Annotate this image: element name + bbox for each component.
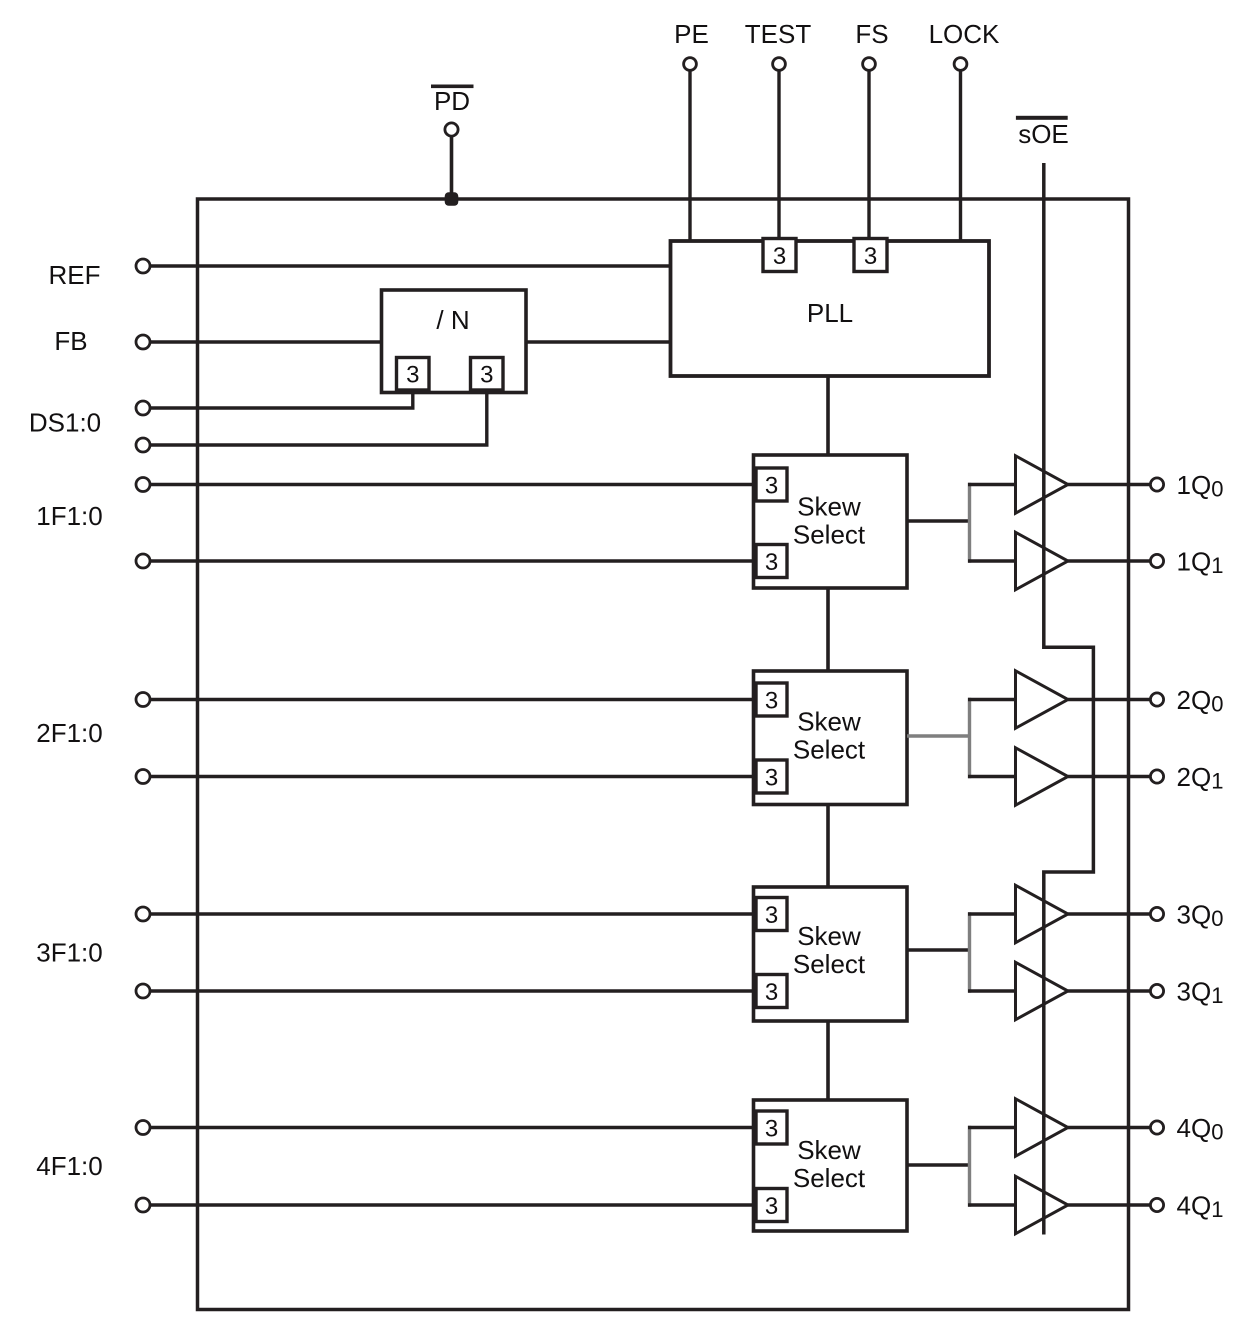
skew select 3 box xyxy=(754,887,908,1021)
svg-text:PD: PD xyxy=(434,86,470,116)
svg-text:3F1:0: 3F1:0 xyxy=(36,938,103,968)
svg-text:3: 3 xyxy=(765,765,778,792)
svg-text:3: 3 xyxy=(480,362,493,389)
pin 1Q0 circle xyxy=(1150,478,1163,491)
wire PD to top border xyxy=(450,133,454,199)
svg-text:3: 3 xyxy=(765,688,778,715)
wire 2F0 input xyxy=(149,775,758,778)
fanout bracket group 2 to buffer 2Q1 xyxy=(968,775,1016,778)
svg-text:TEST: TEST xyxy=(745,19,812,49)
bus width box 3 (divider left) xyxy=(397,358,430,391)
wire skew select 4 output xyxy=(907,1163,969,1166)
svg-text:Select: Select xyxy=(793,735,866,765)
wire 1F0 input xyxy=(149,559,758,562)
wire 2F1 input xyxy=(149,698,758,701)
chip boundary box xyxy=(198,199,1129,1310)
pin 4F0 circle xyxy=(136,1198,150,1212)
wire TEST xyxy=(777,68,780,240)
bus width box 3 (skew select 3 upper) xyxy=(756,898,787,931)
pin DS0 circle xyxy=(136,401,150,415)
buffer 2Q0 xyxy=(1016,671,1069,728)
pin PD circle xyxy=(445,123,458,136)
fanout bracket group 4 to buffer 4Q1 xyxy=(968,1203,1016,1206)
svg-text:Select: Select xyxy=(793,1163,866,1193)
buffer 3Q1 xyxy=(1016,962,1069,1019)
svg-text:DS1:0: DS1:0 xyxy=(29,408,101,438)
pin 4Q1 circle xyxy=(1150,1198,1163,1211)
wire output 3Q0 xyxy=(1068,912,1151,915)
svg-text:FB: FB xyxy=(54,326,87,356)
bus width box 3 (PLL FS) xyxy=(854,239,887,272)
fanout bracket group 3 to buffer 3Q1 xyxy=(968,989,1016,992)
svg-text:sOE: sOE xyxy=(1018,119,1069,149)
pin 3Q1 circle xyxy=(1150,984,1163,997)
skew select 4 box xyxy=(754,1100,908,1231)
PLL box xyxy=(671,241,990,376)
svg-text:4Q0: 4Q0 xyxy=(1177,1113,1224,1145)
bus width box 3 (PLL TEST) xyxy=(763,239,796,272)
svg-text:1Q1: 1Q1 xyxy=(1177,547,1224,579)
svg-text:3: 3 xyxy=(765,1116,778,1143)
wire 1F1 input xyxy=(149,483,758,486)
bus width box 3 (divider right) xyxy=(471,358,504,391)
svg-text:3Q1: 3Q1 xyxy=(1177,977,1224,1009)
bus width box 3 (skew select 4 lower) xyxy=(756,1189,787,1222)
svg-text:3: 3 xyxy=(765,473,778,500)
svg-text:LOCK: LOCK xyxy=(929,19,1000,49)
wire output 2Q1 xyxy=(1068,775,1151,778)
bus width box 3 (skew select 2 lower) xyxy=(756,760,787,793)
fanout bracket group 4 to buffer 4Q0 xyxy=(968,1126,1016,1129)
svg-text:3: 3 xyxy=(765,549,778,576)
wire FB to divider xyxy=(149,340,382,343)
fanout bracket group 3 vertical xyxy=(968,912,971,992)
svg-text:Select: Select xyxy=(793,949,866,979)
wire 4F0 input xyxy=(149,1203,758,1206)
buffer 3Q0 xyxy=(1016,885,1069,942)
wire LOCK xyxy=(959,68,962,241)
pin 2F0 circle xyxy=(136,770,150,784)
pin FB circle xyxy=(136,335,150,349)
fanout bracket group 1 to buffer 1Q0 xyxy=(968,483,1016,486)
fanout bracket group 2 vertical xyxy=(968,698,971,778)
svg-text:PE: PE xyxy=(674,19,709,49)
wire REF to PLL xyxy=(149,264,671,267)
svg-text:3: 3 xyxy=(773,243,786,270)
wire PLL to skew select 1 xyxy=(826,376,830,455)
wire 4F1 input xyxy=(149,1126,758,1129)
pin TEST circle xyxy=(773,58,786,71)
wire output 4Q0 xyxy=(1068,1126,1151,1129)
svg-text:2Q0: 2Q0 xyxy=(1177,685,1224,717)
skew select 2 box xyxy=(754,671,908,805)
pin 1F0 circle xyxy=(136,554,150,568)
wire 3F0 input xyxy=(149,989,758,992)
fanout bracket group 1 vertical xyxy=(968,483,971,563)
wire skew select 1 to skew select 2 xyxy=(826,588,830,671)
wire skew select 1 output xyxy=(907,519,969,522)
pin 2Q0 circle xyxy=(1150,693,1163,706)
pin 4Q0 circle xyxy=(1150,1121,1163,1134)
svg-text:Skew: Skew xyxy=(797,707,861,737)
wire output 1Q1 xyxy=(1068,559,1151,562)
fanout bracket group 1 to buffer 1Q1 xyxy=(968,559,1016,562)
wire PE xyxy=(688,68,691,241)
divider /N box xyxy=(382,290,527,393)
bus width box 3 (skew select 2 upper) xyxy=(756,683,787,716)
pin 3Q0 circle xyxy=(1150,907,1163,920)
svg-text:3: 3 xyxy=(765,902,778,929)
svg-text:2F1:0: 2F1:0 xyxy=(36,718,103,748)
wire 3F1 input xyxy=(149,912,758,915)
wire DS1 xyxy=(149,390,487,445)
buffer 4Q0 xyxy=(1016,1099,1069,1156)
pin FS circle xyxy=(863,58,876,71)
wire skew select 3 output xyxy=(907,948,969,951)
pin 4F1 circle xyxy=(136,1121,150,1135)
bus width box 3 (skew select 1 upper) xyxy=(756,468,787,501)
pin 1F1 circle xyxy=(136,478,150,492)
wire output 4Q1 xyxy=(1068,1203,1151,1206)
pin 1Q1 circle xyxy=(1150,554,1163,567)
pin 3F0 circle xyxy=(136,984,150,998)
svg-text:4F1:0: 4F1:0 xyxy=(36,1151,103,1181)
fanout bracket group 3 to buffer 3Q0 xyxy=(968,912,1016,915)
skew select 1 box xyxy=(754,455,908,588)
fanout bracket group 4 vertical xyxy=(968,1126,971,1207)
svg-text:4Q1: 4Q1 xyxy=(1177,1191,1224,1223)
svg-text:FS: FS xyxy=(855,19,888,49)
bus width box 3 (skew select 1 lower) xyxy=(756,545,787,578)
wire output 3Q1 xyxy=(1068,989,1151,992)
sOE enable net wire xyxy=(1044,163,1094,1235)
svg-text:Select: Select xyxy=(793,519,866,549)
pin PD label xyxy=(431,85,474,117)
wire divider to PLL xyxy=(526,340,671,343)
wire DS0 xyxy=(149,390,413,408)
wire output 2Q0 xyxy=(1068,698,1151,701)
svg-text:Skew: Skew xyxy=(797,1135,861,1165)
pin PE circle xyxy=(684,58,697,71)
pin LOCK circle xyxy=(954,58,967,71)
wire skew select 3 to skew select 4 xyxy=(826,1021,830,1100)
svg-text:3: 3 xyxy=(765,979,778,1006)
svg-text:3Q0: 3Q0 xyxy=(1177,900,1224,932)
pin 2F1 circle xyxy=(136,693,150,707)
wire FS xyxy=(867,68,870,240)
svg-text:1Q0: 1Q0 xyxy=(1177,470,1224,502)
wire skew select 2 to skew select 3 xyxy=(826,805,830,888)
pin 2Q1 circle xyxy=(1150,770,1163,783)
pin sOE label xyxy=(1016,116,1069,149)
fanout bracket group 2 to buffer 2Q0 xyxy=(968,698,1016,701)
svg-text:Skew: Skew xyxy=(797,921,861,951)
svg-text:Skew: Skew xyxy=(797,491,861,521)
buffer 4Q1 xyxy=(1016,1176,1069,1233)
svg-text:REF: REF xyxy=(49,260,101,290)
svg-text:2Q1: 2Q1 xyxy=(1177,762,1224,794)
pin DS1 circle xyxy=(136,438,150,452)
junction dot PD/top border xyxy=(445,192,459,206)
bus width box 3 (skew select 4 upper) xyxy=(756,1111,787,1144)
pin REF circle xyxy=(136,259,150,273)
svg-text:/ N: / N xyxy=(436,305,469,335)
svg-text:3: 3 xyxy=(406,362,419,389)
pin 3F1 circle xyxy=(136,907,150,921)
bus width box 3 (skew select 3 lower) xyxy=(756,975,787,1008)
wire skew select 2 output xyxy=(907,734,969,737)
svg-text:1F1:0: 1F1:0 xyxy=(36,501,103,531)
buffer 1Q0 xyxy=(1016,456,1069,513)
wire output 1Q0 xyxy=(1068,483,1151,486)
buffer 2Q1 xyxy=(1016,748,1069,805)
svg-text:3: 3 xyxy=(765,1193,778,1220)
svg-text:PLL: PLL xyxy=(807,298,853,328)
buffer 1Q1 xyxy=(1016,532,1069,589)
svg-text:3: 3 xyxy=(864,243,877,270)
